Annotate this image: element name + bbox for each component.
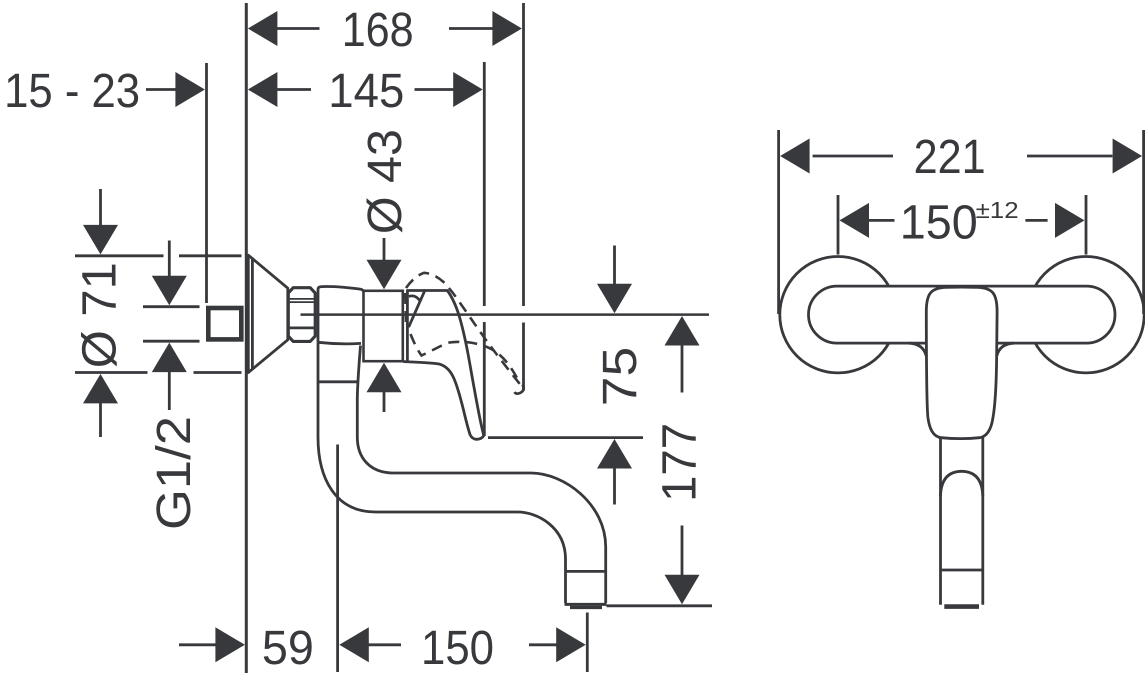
escutcheon circle right	[1028, 257, 1144, 373]
dim 177	[607, 316, 713, 606]
body and lever silhouette front	[926, 287, 997, 439]
svg-text:150: 150	[900, 196, 978, 249]
svg-text:±12: ±12	[976, 197, 1019, 223]
dim 168	[248, 4, 522, 57]
spout	[318, 342, 607, 607]
dim 168 extension line right	[522, 3, 525, 391]
svg-text:Ø 71: Ø 71	[74, 262, 127, 368]
bar-lever fillet right	[997, 343, 1014, 356]
svg-text:221: 221	[914, 131, 986, 184]
dim 75	[488, 246, 647, 505]
dim 221	[779, 130, 1144, 314]
dim 59	[179, 445, 338, 675]
lever pivot arc	[409, 296, 421, 302]
bar-lever fillet left	[909, 343, 926, 356]
hex nut	[288, 288, 315, 342]
svg-text:168: 168	[342, 4, 414, 57]
dim G1/2	[143, 241, 201, 531]
dashed lever tip hook	[515, 385, 524, 394]
svg-text:Ø 43: Ø 43	[359, 129, 412, 234]
svg-text:177: 177	[654, 423, 707, 502]
escutcheon cone	[248, 255, 287, 372]
dim 150 bottom	[339, 613, 587, 675]
lever handle solid	[403, 291, 484, 440]
lever handle dashed (raised)	[405, 273, 521, 386]
svg-text:150: 150	[421, 622, 494, 675]
escutcheon circle left	[780, 257, 896, 373]
centerline	[301, 313, 710, 316]
svg-text:145: 145	[328, 65, 404, 118]
dim D71	[74, 189, 242, 437]
dim 145	[248, 62, 484, 436]
spout tube front	[941, 436, 983, 607]
lever crease line	[409, 289, 426, 327]
dim D43	[359, 129, 412, 412]
svg-text:59: 59	[262, 622, 314, 675]
dim 150pm12	[838, 195, 1086, 255]
svg-text:15 - 23: 15 - 23	[4, 65, 140, 118]
supply connector square	[208, 308, 241, 339]
svg-text:75: 75	[594, 347, 647, 407]
main body	[364, 291, 403, 361]
inlet cylinder	[318, 287, 364, 344]
wall line	[245, 3, 248, 673]
svg-text:G1/2: G1/2	[148, 416, 201, 530]
body bar	[809, 286, 1116, 343]
dim 15 - 23	[4, 63, 206, 303]
